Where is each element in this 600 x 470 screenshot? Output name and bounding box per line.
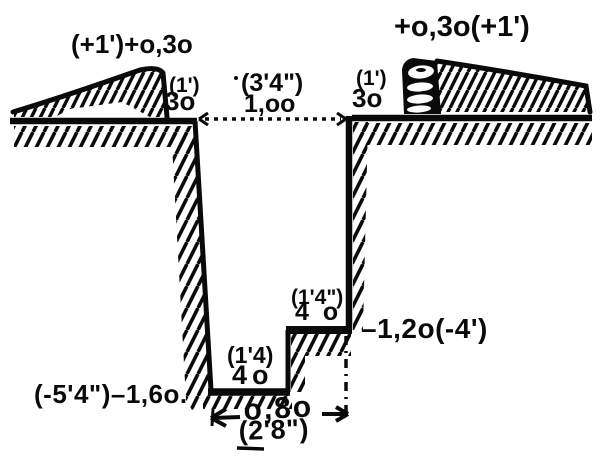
right wall hatch band [353,122,368,330]
left embankment hatch fill [14,70,167,117]
step horizontal [286,326,352,334]
svg-text:(2'8"): (2'8") [238,414,309,446]
trench left wall [195,121,211,390]
below-ground hatch strip right [362,123,592,145]
ground line left [10,118,197,125]
right embankment hatch fill [437,63,590,112]
svg-text:(-5'4")–1,6o.: (-5'4")–1,6o. [34,379,188,409]
svg-text:4o: 4o [295,298,352,326]
left arrowhead [199,113,208,125]
below-ground hatch strip left [14,126,186,147]
svg-text:(+1')+o,3o: (+1')+o,3o [71,29,193,59]
svg-text:1,oo: 1,oo [244,90,295,118]
step vertical [286,330,291,392]
trench bottom (lower) [208,388,290,396]
hatch below bottom [203,395,292,409]
coil [402,58,441,114]
dotted dimension line [205,117,341,121]
right arrowhead [337,113,346,125]
svg-text:4o: 4o [232,360,274,390]
step hatch patch [291,334,351,392]
svg-text:3o: 3o [165,86,195,116]
left wall hatch band [171,126,215,410]
svg-text:+o,3o(+1'): +o,3o(+1') [394,11,530,43]
left embankment outline [13,69,167,117]
underline under (2 [237,448,264,449]
speck dot [234,76,238,80]
trench right wall [346,116,353,330]
right embankment outline [437,61,590,112]
ground line right [352,115,592,122]
bottom dimension right arrow [322,412,346,416]
svg-text:–1,2o(-4'): –1,2o(-4') [361,313,488,344]
svg-text:3o: 3o [352,83,382,113]
dash-dot vertical line [344,336,348,412]
white gap inside embankment [55,102,150,117]
bottom dimension left arrow [213,417,240,418]
